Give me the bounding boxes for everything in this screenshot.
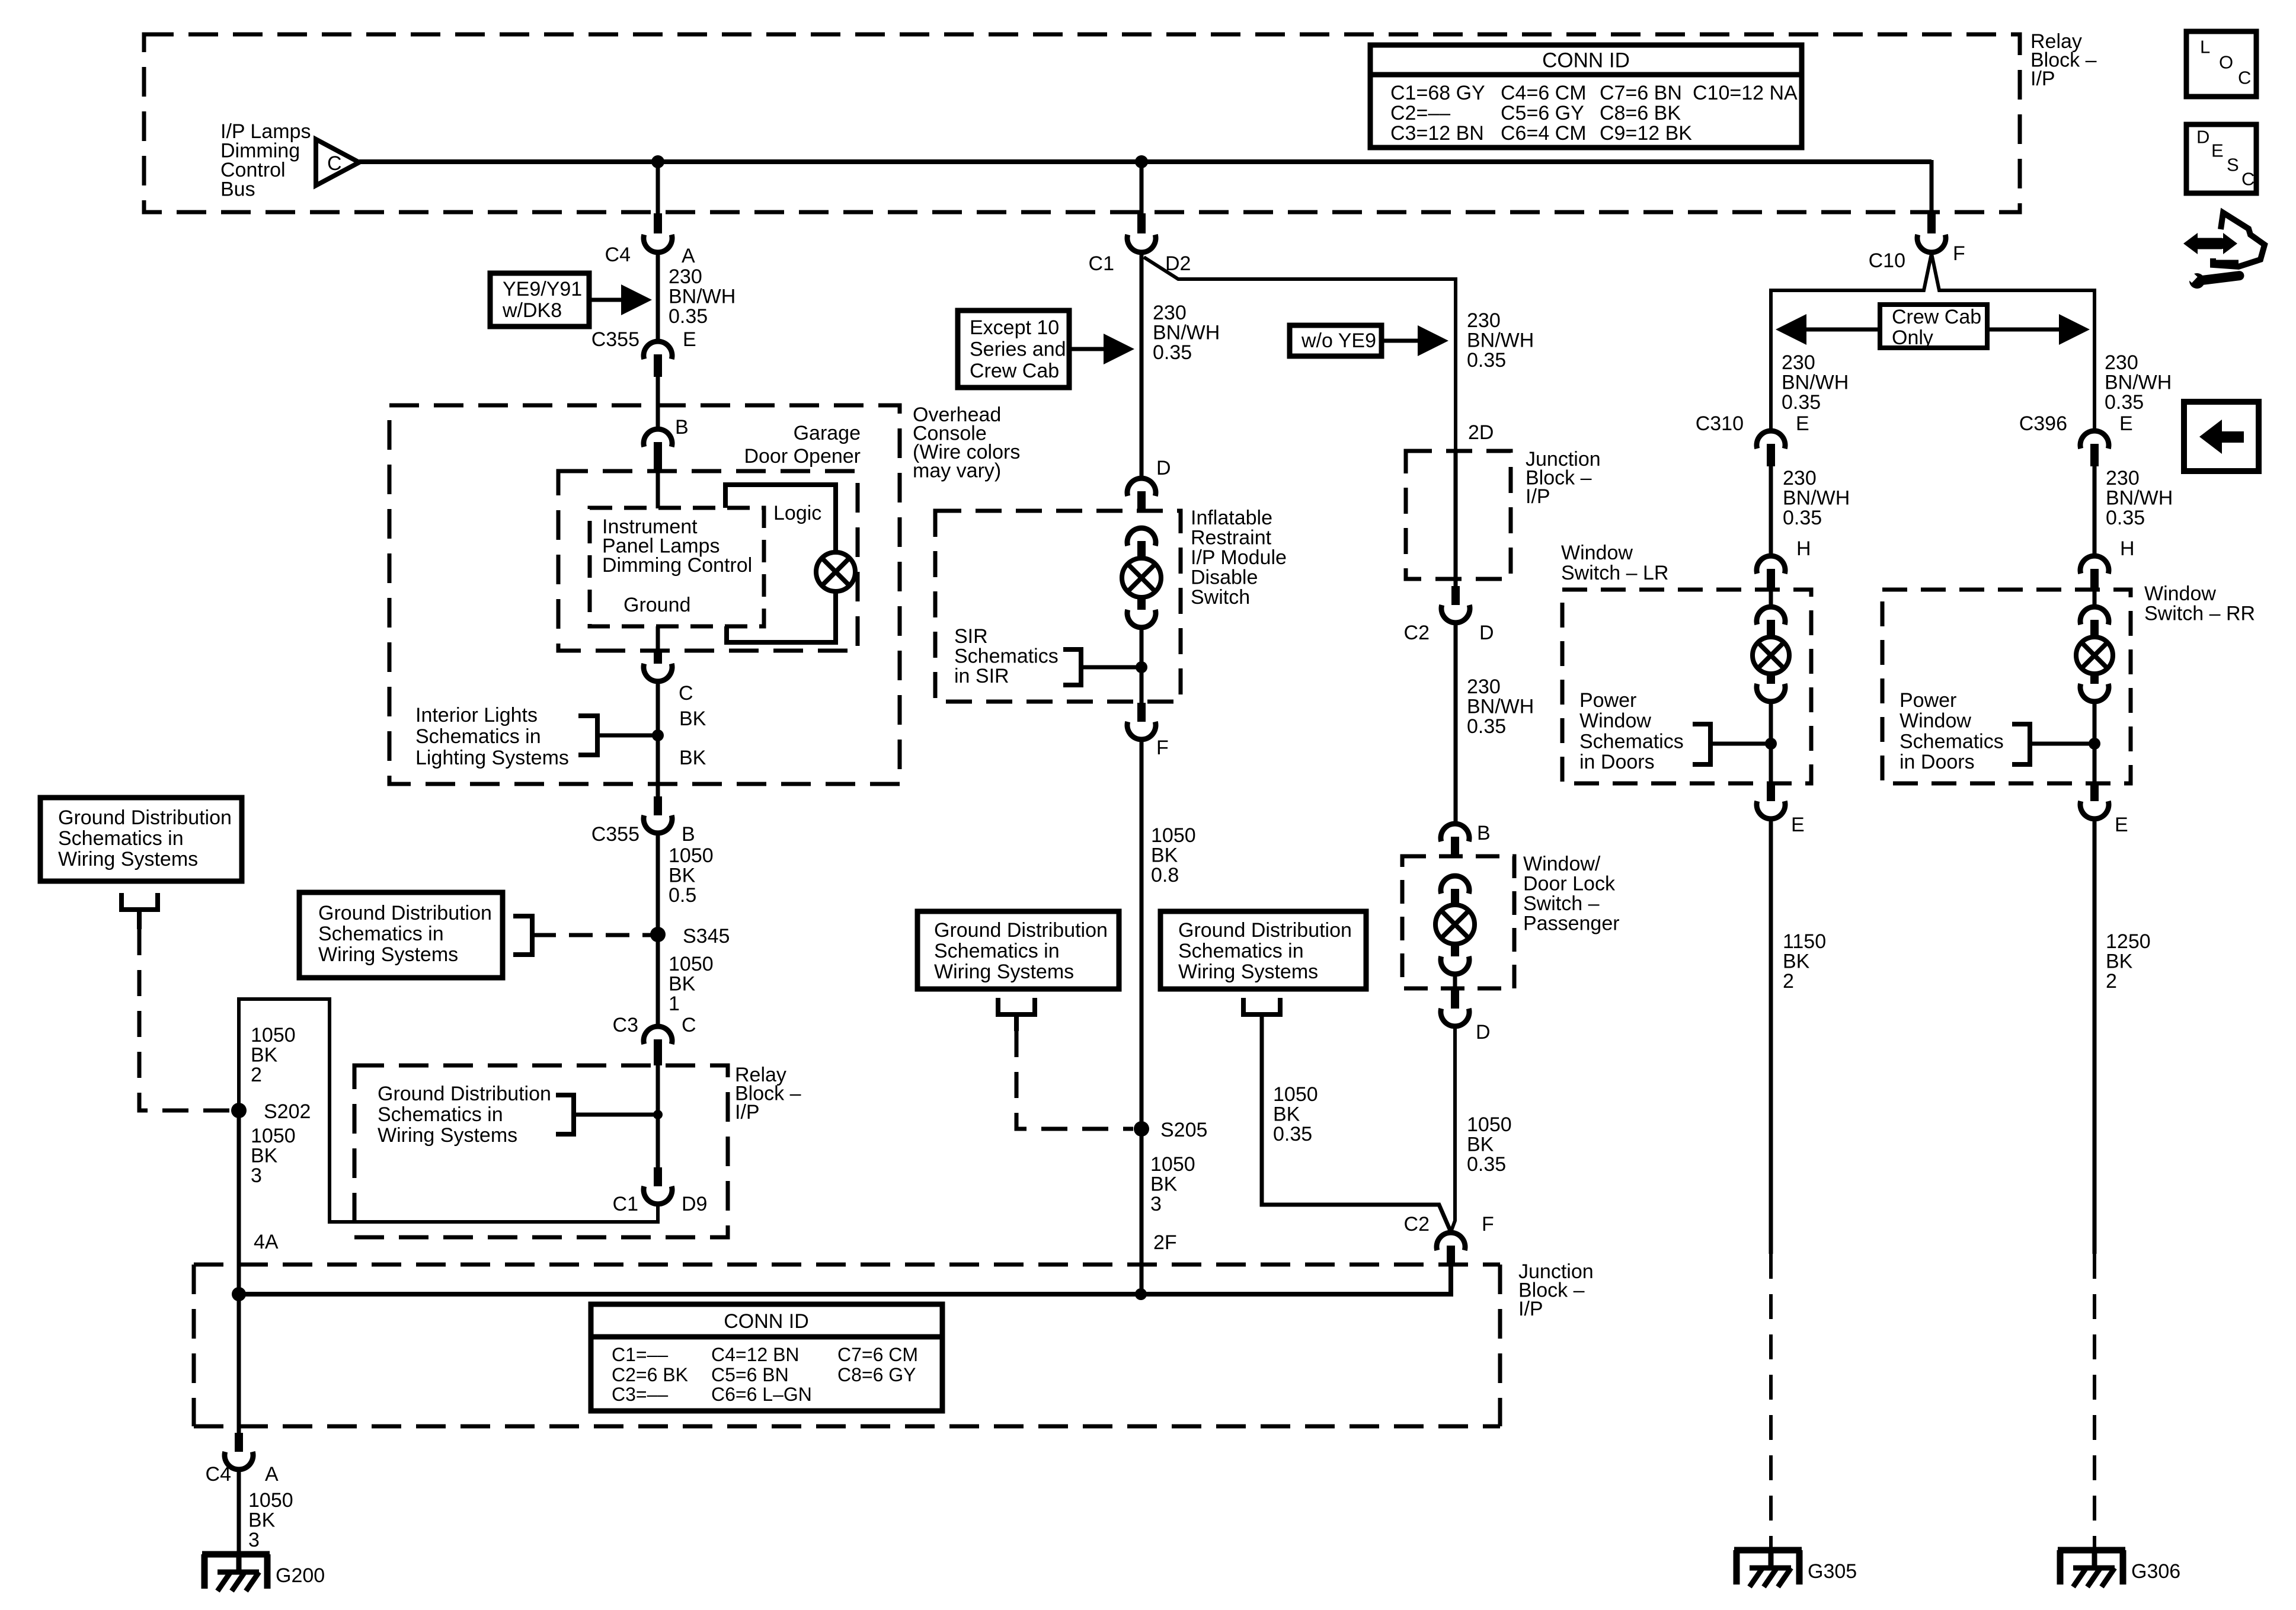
svg-text:230: 230 [1467, 676, 1501, 698]
box: Ground Distribution Schematics in Wiring Systems (at S205) [917, 911, 1119, 989]
wire: indicator lamp return to dimming control [727, 591, 836, 642]
svg-text:F: F [1156, 737, 1169, 759]
svg-text:E: E [683, 328, 696, 351]
svg-text:C310: C310 [1696, 412, 1744, 435]
svg-text:C4: C4 [605, 244, 631, 266]
svg-text:Inflatable: Inflatable [1191, 507, 1272, 529]
svg-text:BN/WH: BN/WH [1467, 696, 1534, 718]
svg-text:C3=––: C3=–– [612, 1384, 668, 1405]
lamp: window switch LR illumination [1753, 637, 1789, 674]
junction: interior lights tap [652, 729, 664, 741]
svg-text:BN/WH: BN/WH [1153, 322, 1220, 344]
svg-text:C7=6 CM: C7=6 CM [837, 1344, 918, 1365]
svg-text:Wiring Systems: Wiring Systems [378, 1124, 517, 1147]
svg-text:Ground: Ground [623, 594, 690, 616]
svg-text:C4=6 CM: C4=6 CM [1501, 82, 1587, 104]
connector half: disable switch lamp return [1127, 597, 1156, 628]
svg-text:S205: S205 [1160, 1119, 1207, 1141]
svg-text:G305: G305 [1808, 1560, 1857, 1583]
svg-text:Wiring Systems: Wiring Systems [318, 943, 458, 966]
value label: 1050 BK 0.5 [669, 844, 714, 907]
label: Relay Block - I/P (lower) [735, 1064, 801, 1124]
CONN ID table (relay block I/P) [1370, 45, 1802, 148]
wire: BK ground wire to interior lights tap [656, 683, 660, 796]
svg-text:C355: C355 [591, 328, 639, 351]
svg-text:Ground Distribution: Ground Distribution [58, 806, 232, 829]
ground G306 [2058, 1550, 2180, 1587]
svg-text:G200: G200 [276, 1564, 325, 1587]
svg-text:0.35: 0.35 [1153, 341, 1192, 364]
svg-text:C10=12 NA: C10=12 NA [1693, 82, 1798, 104]
connector C355 pin E [591, 328, 696, 377]
wire: through upper junction block [1454, 451, 1458, 586]
svg-text:S202: S202 [264, 1100, 311, 1123]
svg-text:C8=6 GY: C8=6 GY [837, 1364, 916, 1385]
svg-text:Window: Window [1561, 542, 1633, 564]
svg-text:C2=6 BK: C2=6 BK [612, 1364, 688, 1385]
ground G200 [202, 1554, 325, 1591]
svg-text:2: 2 [2106, 970, 2117, 993]
option box: Crew Cab Only [1880, 305, 1987, 349]
svg-text:C9=12 BK: C9=12 BK [1600, 122, 1692, 145]
junction: LR power window tap [1765, 738, 1777, 750]
svg-text:C1: C1 [1089, 252, 1114, 275]
value label: 1250 BK 2 [2106, 930, 2151, 993]
wire: 1050 BK 3 (to G200) [237, 1471, 241, 1555]
svg-text:1050: 1050 [251, 1024, 296, 1046]
label: Overhead Console (Wire colors may vary) [913, 404, 1020, 482]
junction: bus tap column 2 [1135, 155, 1148, 168]
value label: 230 BN/WH 0.35 (to RR switch) [2106, 467, 2173, 529]
connector C1 pin D2 [1089, 213, 1191, 275]
connector half: LR illumination return [1757, 674, 1785, 702]
svg-text:C4=12 BN: C4=12 BN [711, 1344, 800, 1365]
svg-text:1050: 1050 [251, 1125, 296, 1147]
svg-text:Passenger: Passenger [1523, 913, 1620, 935]
wire: bus drop to C10 [1930, 160, 1934, 217]
svg-text:SIR: SIR [954, 625, 988, 648]
relay block I/P dashed outline (lower) [354, 1065, 728, 1237]
svg-text:230: 230 [1153, 302, 1187, 324]
wire: C2-F to junction block bus [1449, 1266, 1453, 1294]
arrow: Except 10 Series applies to circuit [1069, 334, 1134, 364]
svg-text:BK: BK [248, 1509, 276, 1532]
value label: 1050 BK 2 [251, 1024, 296, 1086]
label: Instrument Panel Lamps Dimming Control [602, 516, 752, 577]
window switch LR dashed outline [1562, 590, 1811, 783]
svg-text:0.35: 0.35 [1467, 715, 1506, 738]
connector half: switch illumination return [1441, 943, 1469, 974]
svg-text:H: H [2120, 537, 2135, 560]
svg-text:I/P: I/P [735, 1101, 760, 1124]
box: Ground Distribution Schematics in Wiring Systems (window circuit) [1160, 911, 1366, 989]
wire: 1050 BK 1 (S345 to C3-C) [656, 934, 660, 1025]
label: Power Window Schematics in Doors (LR) [1579, 689, 1684, 773]
value label: BK (below tap) [679, 747, 706, 769]
svg-text:C3=12 BN: C3=12 BN [1390, 122, 1484, 145]
svg-text:A: A [265, 1463, 279, 1486]
svg-text:Ground Distribution: Ground Distribution [378, 1083, 551, 1105]
wire: C10-F split left branch [1771, 254, 1932, 430]
value label: 230 BN/WH 0.35 (branch) [1467, 309, 1534, 372]
svg-text:C8=6 BK: C8=6 BK [1600, 102, 1681, 124]
svg-text:230: 230 [1782, 351, 1815, 374]
svg-text:Door Opener: Door Opener [744, 445, 861, 468]
value label: 230 BN/WH 0.35 (left branch) [1782, 351, 1849, 414]
svg-text:Schematics in: Schematics in [415, 725, 541, 748]
svg-text:C1: C1 [613, 1193, 638, 1215]
svg-text:Crew Cab: Crew Cab [970, 360, 1059, 382]
wire: 1050 BK 3 (S202 to junction block) [237, 1110, 241, 1295]
value label: 230 BN/WH 0.35 (right branch) [2105, 351, 2172, 414]
connector H (window switch RR) [2080, 537, 2135, 590]
svg-text:D: D [1479, 622, 1494, 644]
connector F (inflatable restraint disable switch) [1127, 703, 1169, 759]
svg-text:230: 230 [1783, 467, 1817, 489]
svg-text:C1=68 GY: C1=68 GY [1390, 82, 1485, 104]
svg-text:CONN ID: CONN ID [724, 1310, 809, 1333]
value label: 230 BN/WH 0.35 (C2-D) [1467, 676, 1534, 738]
arrow: YE9/Y91 w/DK8 applies to circuit 230 [589, 284, 652, 315]
icon: LOC box [2186, 31, 2256, 97]
svg-text:0.35: 0.35 [2105, 391, 2144, 414]
svg-text:230: 230 [2105, 351, 2138, 374]
connector C4 pin A [605, 213, 695, 267]
svg-text:Only: Only [1892, 327, 1933, 349]
wire: 1050 BK 0.5 (C355-B to S345) [656, 834, 660, 934]
svg-text:BK: BK [251, 1044, 278, 1067]
lamp: garage door opener indicator [816, 552, 855, 591]
arrow: crew cab only applies left [1776, 314, 1880, 345]
svg-text:Switch: Switch [1191, 586, 1250, 609]
inflatable restraint disable switch dashed outline [935, 511, 1181, 702]
svg-text:C4: C4 [206, 1463, 231, 1486]
svg-text:Interior Lights: Interior Lights [415, 704, 538, 726]
svg-text:C10: C10 [1869, 249, 1905, 272]
value label: 1050 BK 3 (column 1) [251, 1125, 296, 1187]
svg-text:C3: C3 [613, 1014, 638, 1036]
svg-text:Series and: Series and [970, 338, 1066, 361]
svg-text:BK: BK [1150, 1173, 1178, 1196]
net label: 2D [1468, 421, 1494, 444]
wire: RR lamp return to E [2093, 703, 2097, 783]
wire: 230 BN/WH 0.35 (C1-D2 main drop) [1140, 254, 1144, 476]
icon: back arrow box [2184, 402, 2259, 471]
splice S202 [231, 1100, 311, 1123]
svg-text:C6=4 CM: C6=4 CM [1501, 122, 1587, 145]
svg-text:0.35: 0.35 [1467, 349, 1506, 372]
connector C396 pin E [2019, 412, 2133, 466]
dashed wire: 1150 BK 2 to G305 [1769, 1254, 1773, 1547]
svg-text:YE9/Y91: YE9/Y91 [503, 278, 582, 300]
label: Window Switch - LR [1561, 542, 1668, 584]
connector C310 pin E [1696, 412, 1809, 466]
svg-text:2D: 2D [1468, 421, 1494, 444]
svg-text:Schematics in: Schematics in [378, 1103, 503, 1126]
junction: bus tap column 1 [651, 155, 664, 168]
connector half: RR illumination return [2080, 674, 2109, 702]
svg-text:C355: C355 [591, 823, 639, 846]
net label: 2F [1153, 1231, 1177, 1254]
svg-text:0.8: 0.8 [1151, 864, 1179, 886]
svg-text:Lighting Systems: Lighting Systems [415, 747, 569, 769]
svg-text:0.5: 0.5 [669, 884, 696, 907]
value label: 1050 BK 0.8 [1151, 824, 1196, 886]
svg-text:C: C [2241, 169, 2255, 190]
connector C4 pin A (junction block bottom) [206, 1433, 279, 1486]
svg-text:in Doors: in Doors [1900, 751, 1975, 773]
svg-text:230: 230 [669, 265, 702, 288]
wire: 1250 BK 2 solid segment [2093, 820, 2097, 1254]
wire: C310-E to window switch LR [1769, 466, 1773, 555]
svg-text:Logic: Logic [773, 502, 821, 524]
connector C1 pin D9 [613, 1167, 708, 1215]
connector E (window switch LR) [1757, 783, 1805, 836]
svg-text:C: C [327, 152, 342, 175]
svg-text:Power: Power [1579, 689, 1636, 712]
wire: dimming control ground lead [656, 626, 660, 649]
label: Power Window Schematics in Doors (RR) [1900, 689, 2004, 773]
svg-text:B: B [1477, 822, 1491, 844]
svg-text:D9: D9 [682, 1193, 707, 1215]
wire: C10-F split right branch [1932, 254, 2094, 430]
svg-text:BN/WH: BN/WH [669, 286, 736, 308]
svg-text:A: A [682, 245, 695, 267]
dashed wire: 1250 BK 2 to G306 [2093, 1254, 2096, 1547]
svg-text:3: 3 [1150, 1193, 1162, 1215]
svg-text:E: E [2211, 140, 2224, 161]
wire: 1050 BK 0.35 ground distribution branch [1262, 1014, 1451, 1232]
svg-text:C2: C2 [1404, 622, 1430, 644]
value label: 1050 BK 3 (column 2) [1150, 1153, 1195, 1215]
label: Ground Distribution Schematics in Wiring Systems (inside relay block) [378, 1083, 551, 1147]
bracket: ground distribution tie-in (window circuit box) [1243, 998, 1280, 1014]
svg-text:1: 1 [669, 993, 680, 1015]
svg-text:Schematics in: Schematics in [58, 827, 184, 850]
svg-text:in SIR: in SIR [954, 665, 1009, 687]
wire: 230 BN/WH 0.35 (C4-A to C355-E) [656, 254, 660, 340]
value label: 1150 BK 2 [1783, 930, 1826, 993]
wire: H into LR switch [1769, 590, 1773, 606]
label: Junction Block - I/P (upper) [1526, 448, 1601, 508]
connector B (overhead console) [644, 416, 689, 469]
connector E (window switch RR) [2080, 783, 2128, 836]
junction: SIR tap [1136, 661, 1147, 673]
connector half: switch illumination feed [1441, 876, 1469, 905]
svg-text:BN/WH: BN/WH [2106, 487, 2173, 510]
svg-text:2: 2 [1783, 970, 1794, 993]
window switch RR dashed outline [1882, 590, 2131, 783]
svg-text:I/P: I/P [2030, 68, 2055, 90]
svg-text:Switch –: Switch – [1523, 892, 1600, 915]
option box: YE9/Y91 w/DK8 [490, 273, 589, 327]
wire: 1050 BK 0.35 (switch to C2-F) [1451, 1028, 1455, 1232]
svg-text:Ground Distribution: Ground Distribution [1178, 919, 1352, 942]
svg-text:E: E [1791, 814, 1805, 836]
icon: DESC box [2186, 124, 2256, 193]
svg-text:Ground Distribution: Ground Distribution [934, 919, 1108, 942]
svg-text:BK: BK [1467, 1134, 1494, 1156]
bracket: SIR schematics tie-in [1063, 649, 1141, 685]
svg-text:0.35: 0.35 [1782, 391, 1821, 414]
bracket: power window tie-in (LR) [1693, 724, 1771, 764]
svg-text:1050: 1050 [1150, 1153, 1195, 1176]
svg-text:Restraint: Restraint [1191, 527, 1272, 549]
connector D (inflatable restraint disable switch) [1127, 457, 1171, 511]
label: Window/Door Lock Switch - Passenger [1523, 853, 1620, 935]
svg-text:C7=6 BN: C7=6 BN [1600, 82, 1682, 104]
svg-text:Schematics in: Schematics in [318, 923, 444, 945]
svg-text:3: 3 [248, 1529, 260, 1551]
value label: BK (above tap) [679, 708, 706, 730]
junction: internal bus at column 1 [232, 1287, 246, 1301]
connector half: RR illumination feed [2080, 607, 2109, 636]
value label: 230 BN/WH 0.35 (to LR switch) [1783, 467, 1850, 529]
connector B (window/door lock switch) [1441, 822, 1491, 858]
value label: 1050 BK 0.35 (column 3) [1467, 1113, 1512, 1176]
splice S205 [1134, 1119, 1207, 1141]
svg-text:D: D [1156, 457, 1171, 479]
wire: LR lamp return to E [1769, 703, 1773, 783]
connector C355 pin B [591, 796, 695, 846]
label: Logic (dimming control pin) [773, 502, 821, 524]
wire: C1-D9 return run to S202 [239, 999, 658, 1222]
svg-text:Door Lock: Door Lock [1523, 873, 1616, 895]
value label: 230 BN/WH 0.35 (column 1) [669, 265, 736, 328]
svg-text:Window: Window [1900, 710, 1971, 732]
svg-text:Wiring Systems: Wiring Systems [58, 848, 198, 870]
svg-text:C5=6 BN: C5=6 BN [711, 1364, 789, 1385]
svg-text:in Doors: in Doors [1579, 751, 1655, 773]
svg-text:O: O [2219, 52, 2233, 73]
svg-text:4A: 4A [254, 1231, 279, 1253]
svg-text:Switch – LR: Switch – LR [1561, 562, 1668, 584]
svg-text:1150: 1150 [1783, 930, 1826, 953]
svg-text:E: E [2115, 814, 2128, 836]
svg-text:I/P: I/P [1526, 485, 1550, 508]
wire: connector B to dimming control [656, 469, 660, 508]
net label: 4A [254, 1231, 279, 1253]
lamp: window switch RR illumination [2076, 637, 2113, 674]
svg-text:C: C [682, 1014, 696, 1036]
wire: logic output to indicator lamp [725, 485, 836, 553]
wire: 230 BN/WH 0.35 (C2-D to window/door lock switch) [1454, 624, 1458, 822]
connector C2 pin F [1404, 1213, 1494, 1266]
bracket: power window tie-in (RR) [2012, 724, 2094, 764]
connector half: LR illumination feed [1757, 607, 1785, 636]
label: SIR Schematics in SIR [954, 625, 1059, 687]
svg-text:D: D [2196, 127, 2209, 148]
connector D (window/door lock switch) [1441, 990, 1491, 1044]
svg-text:Schematics: Schematics [1579, 730, 1684, 753]
junction block I/P dashed outline (upper) [1406, 451, 1511, 579]
svg-text:1050: 1050 [1273, 1083, 1318, 1106]
label: Interior Lights Schematics in Lighting Systems [415, 704, 569, 769]
svg-text:BK: BK [1151, 844, 1178, 867]
svg-text:I/P: I/P [1518, 1298, 1543, 1320]
ground G305 [1734, 1550, 1857, 1587]
svg-text:3: 3 [251, 1164, 262, 1187]
bracket: ground distribution tie-in (top left box) [121, 893, 158, 929]
value label: 1050 BK 1 [669, 953, 714, 1015]
svg-text:Switch – RR: Switch – RR [2144, 603, 2255, 625]
svg-text:C396: C396 [2019, 412, 2067, 435]
wire: bus to connector C1 (column 2) [1140, 162, 1144, 215]
label: Garage Door Opener [744, 422, 861, 468]
svg-text:0.35: 0.35 [1783, 507, 1822, 529]
svg-text:Schematics in: Schematics in [1178, 940, 1304, 962]
svg-text:Dimming Control: Dimming Control [602, 554, 752, 577]
svg-text:BK: BK [679, 708, 706, 730]
connector H (window switch LR) [1757, 537, 1811, 590]
svg-text:1050: 1050 [1467, 1113, 1512, 1136]
splice S345 [650, 925, 730, 948]
svg-text:w/DK8: w/DK8 [502, 299, 562, 322]
bracket: ground distribution tie-in at S345 [513, 916, 532, 955]
junction block I/P dashed outline (bottom) [194, 1265, 1500, 1426]
value label: 1050 BK 0.35 (ground distribution branch) [1273, 1083, 1318, 1145]
svg-text:0.35: 0.35 [1273, 1123, 1312, 1145]
wire: 1050 BK 0.8 (F to S205) [1140, 741, 1144, 1129]
lamp: inflatable restraint disable switch indicator [1122, 558, 1161, 597]
svg-text:Schematics: Schematics [1900, 730, 2004, 753]
overhead console dashed outline [389, 405, 900, 784]
svg-text:BK: BK [2106, 950, 2133, 973]
svg-text:Ground Distribution: Ground Distribution [318, 902, 492, 924]
window/door lock switch dashed outline [1402, 856, 1514, 988]
svg-text:B: B [682, 823, 695, 846]
svg-text:S345: S345 [683, 925, 730, 948]
wire: dimming control bus (horizontal) [359, 159, 1932, 164]
dashed wire: S345 to ground distribution schematics [532, 933, 651, 937]
svg-text:C1=––: C1=–– [612, 1344, 668, 1365]
svg-text:Wiring Systems: Wiring Systems [1178, 961, 1318, 983]
svg-text:S: S [2227, 155, 2239, 175]
svg-text:CONN ID: CONN ID [1542, 49, 1630, 72]
option box: w/o YE9 [1290, 325, 1382, 356]
svg-text:may vary): may vary) [913, 460, 1001, 482]
label: Inflatable Restraint I/P Module Disable Switch [1191, 507, 1287, 609]
wire: to connector D (switch output) [1453, 975, 1457, 990]
svg-text:Window: Window [1579, 710, 1651, 732]
svg-text:BK: BK [669, 865, 696, 887]
value label: 1050 BK 3 (ground lead) [248, 1489, 293, 1551]
dashed wire: ground distribution to S205 [1016, 1031, 1133, 1129]
wire: through relay block (C3-C to C1-D9) [656, 1065, 660, 1167]
svg-text:B: B [675, 416, 689, 438]
svg-text:Bus: Bus [220, 178, 255, 201]
icon: vehicle diagnosis (arrows + wrench) [2183, 213, 2265, 290]
svg-text:C: C [679, 682, 693, 705]
junction: RR power window tap [2089, 738, 2100, 750]
svg-text:2: 2 [251, 1064, 262, 1086]
svg-text:F: F [1482, 1213, 1494, 1235]
svg-text:BK: BK [1273, 1103, 1300, 1126]
box: Ground Distribution Schematics in Wiring Systems (at S345) [299, 892, 503, 978]
label: Relay Block - I/P [2030, 30, 2097, 90]
relay block I/P dashed outline (top) [144, 34, 2020, 212]
svg-text:0.35: 0.35 [2106, 507, 2145, 529]
wire: branch D2 to junction block (w/o YE9) [1144, 257, 1456, 453]
wire: bus to connector C4 (column 1) [656, 162, 660, 215]
label: Ground (dimming control pin) [623, 594, 690, 616]
junction: relay block ground tap [653, 1110, 663, 1119]
instrument panel lamps dimming control dashed outline [590, 508, 764, 626]
wire: column 1 through junction block [237, 1294, 241, 1433]
value label: 230 BN/WH 0.35 (column 2) [1153, 302, 1220, 364]
svg-text:C2: C2 [1404, 1213, 1430, 1235]
label: Junction Block - I/P (bottom) [1518, 1260, 1594, 1320]
